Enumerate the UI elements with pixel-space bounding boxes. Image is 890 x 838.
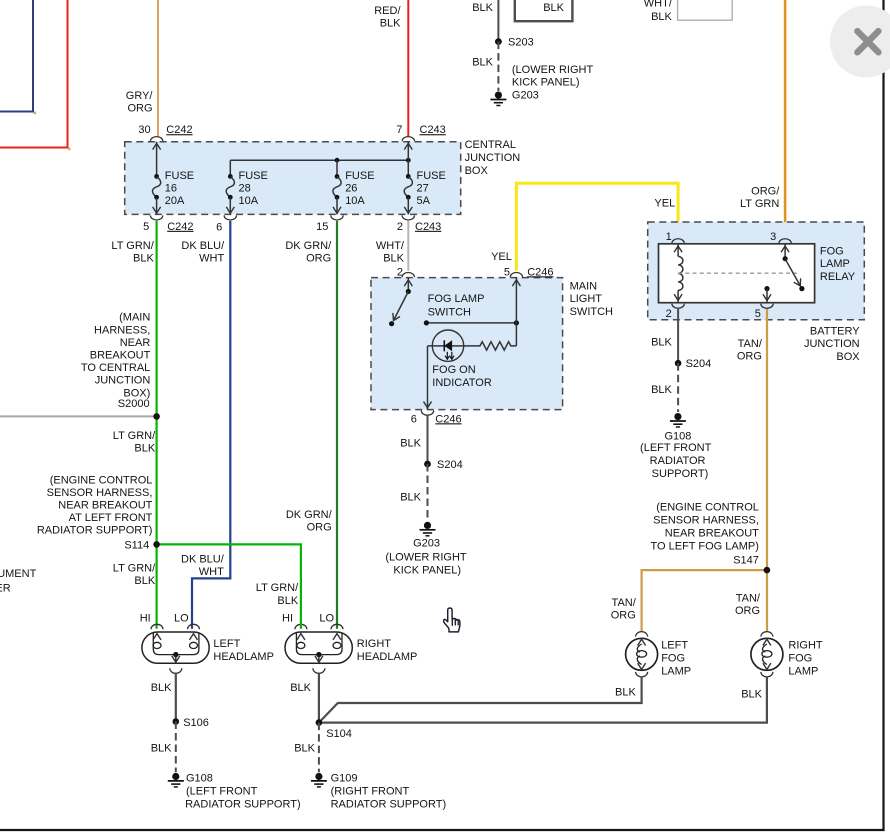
svg-text:BLK: BLK: [472, 2, 493, 14]
wire BLK dashed S104 to G109: [318, 723, 320, 773]
wire ORG/LT GRN from top to relay pin 3: [784, 0, 787, 236]
svg-text:(LEFT FRONT: (LEFT FRONT: [186, 786, 258, 798]
svg-text:LO: LO: [319, 613, 334, 625]
wire BLK fog lamp switch pin6 to S204: [427, 416, 429, 464]
svg-text:C242: C242: [167, 221, 193, 233]
svg-text:6: 6: [216, 222, 222, 234]
svg-text:FUSE: FUSE: [239, 170, 268, 182]
fog lamp at x=641.6: [636, 632, 648, 637]
wire BLK relay pin2 to S204: [677, 309, 679, 363]
relay blade (open): [785, 259, 800, 286]
wire DK GRN/ORG fuse26 to right headlamp LO: [336, 221, 338, 629]
wire YEL switch pin5 to relay pin1: [516, 183, 678, 270]
splice S104: [316, 719, 323, 726]
svg-text:YEL: YEL: [654, 197, 675, 209]
svg-text:ORG: ORG: [306, 252, 331, 264]
svg-text:7: 7: [396, 124, 402, 136]
svg-text:2: 2: [397, 221, 403, 233]
svg-text:BLK: BLK: [151, 682, 172, 694]
svg-text:DK BLU/: DK BLU/: [181, 240, 225, 252]
svg-text:ORG: ORG: [737, 351, 762, 363]
svg-text:BOX: BOX: [836, 351, 860, 363]
ground G203 (lower right kick panel): [495, 92, 502, 99]
svg-text:JUNCTION: JUNCTION: [804, 338, 860, 350]
svg-text:ORG: ORG: [611, 610, 636, 622]
svg-text:KICK PANEL): KICK PANEL): [512, 77, 580, 89]
svg-text:BREAKOUT: BREAKOUT: [90, 350, 151, 362]
fuse 26 10A: [336, 160, 338, 176]
svg-text:BLK: BLK: [277, 595, 298, 607]
splice S106: [173, 718, 180, 725]
LED triangle + cathode bar: [444, 340, 452, 351]
svg-text:SUPPORT): SUPPORT): [652, 468, 709, 480]
svg-text:AT LEFT FRONT: AT LEFT FRONT: [69, 512, 153, 524]
svg-text:INDICATOR: INDICATOR: [432, 377, 492, 389]
svg-text:(LOWER RIGHT: (LOWER RIGHT: [385, 551, 467, 563]
svg-text:C246: C246: [527, 266, 553, 278]
svg-text:ORG: ORG: [735, 605, 760, 617]
relay actuation dashed link: [678, 272, 797, 274]
close (X) button: [830, 6, 890, 78]
splice S203: [495, 38, 502, 45]
svg-text:(LEFT FRONT: (LEFT FRONT: [640, 442, 712, 454]
connector arc relay pin 3: [779, 239, 791, 244]
svg-text:FOG: FOG: [788, 652, 812, 664]
svg-text:NEAR BREAKOUT: NEAR BREAKOUT: [58, 499, 152, 511]
junction dot at fuse 26 bus: [335, 158, 340, 163]
wire BLK right fog lamp to S104: [321, 677, 767, 723]
svg-text:BLK: BLK: [380, 18, 401, 30]
svg-text:27: 27: [417, 182, 429, 194]
svg-text:YEL: YEL: [491, 251, 512, 263]
svg-text:JUNCTION: JUNCTION: [95, 375, 151, 387]
switch contact line: [426, 322, 516, 324]
svg-text:C243: C243: [415, 221, 441, 233]
svg-text:BLK: BLK: [615, 686, 636, 698]
svg-text:HARNESS,: HARNESS,: [94, 324, 150, 336]
central junction box (dashed, blue fill): [125, 142, 461, 215]
svg-text:MAIN: MAIN: [570, 281, 598, 293]
svg-text:2: 2: [666, 308, 672, 320]
main light switch box (dashed, blue fill): [371, 278, 563, 410]
switch pin 2 lead: [407, 278, 409, 292]
splice S2000: [153, 413, 160, 420]
svg-text:TAN/: TAN/: [612, 597, 637, 609]
svg-text:BLK: BLK: [400, 438, 421, 450]
connector arc pin 15: [331, 215, 343, 220]
svg-text:CENTRAL: CENTRAL: [465, 139, 516, 151]
svg-text:RADIATOR SUPPORT): RADIATOR SUPPORT): [185, 798, 301, 810]
svg-text:BLK: BLK: [383, 252, 404, 264]
svg-text:KICK PANEL): KICK PANEL): [393, 564, 461, 576]
svg-text:BLK: BLK: [134, 575, 155, 587]
relay pin5 contact: [764, 286, 769, 291]
svg-text:16: 16: [165, 182, 177, 194]
wire TAN/ORG relay pin5 to fog lamps: [766, 309, 768, 632]
svg-text:5: 5: [504, 266, 510, 278]
svg-text:DK BLU/: DK BLU/: [181, 554, 225, 566]
svg-text:5: 5: [755, 308, 761, 320]
svg-text:HEADLAMP: HEADLAMP: [213, 651, 274, 663]
fog lamp at x=766.9: [761, 632, 773, 637]
wire GRY/ORG from top to fuse 16: [157, 0, 159, 137]
svg-text:HI: HI: [140, 613, 151, 625]
junction dot at fuse 27 bus: [406, 158, 411, 163]
resistor (indicator dropping): [428, 342, 517, 350]
ground G203 (lower right kick panel, switch side): [424, 522, 431, 529]
switch pin 5 lead: [515, 278, 517, 346]
connector arc relay pin 1: [672, 239, 684, 244]
svg-text:JUNCTION: JUNCTION: [465, 152, 521, 164]
svg-text:BLK: BLK: [651, 336, 672, 348]
svg-text:5A: 5A: [417, 195, 431, 207]
relay switch pin3 lead: [784, 244, 786, 259]
svg-text:S104: S104: [326, 728, 352, 740]
svg-text:GRY/: GRY/: [126, 90, 154, 102]
svg-text:WHT: WHT: [199, 252, 224, 264]
connector arc relay pin 5: [761, 304, 773, 309]
connector arc pin 2 C243: [402, 215, 414, 220]
svg-text:(RIGHT FRONT: (RIGHT FRONT: [331, 786, 410, 798]
svg-text:BATTERY: BATTERY: [810, 325, 860, 337]
svg-text:LAMP: LAMP: [820, 258, 850, 270]
cropped connector box top middle: [515, 0, 573, 21]
svg-text:TO CENTRAL: TO CENTRAL: [81, 362, 150, 374]
svg-text:10A: 10A: [345, 195, 365, 207]
svg-text:RIGHT: RIGHT: [788, 639, 823, 651]
LED emission arrows: [446, 352, 448, 359]
svg-text:LEFT: LEFT: [661, 639, 688, 651]
svg-text:S2000: S2000: [118, 398, 150, 410]
fuse 16 20A: [156, 142, 158, 177]
svg-text:LT GRN/: LT GRN/: [111, 240, 154, 252]
svg-text:TO LEFT FOG LAMP): TO LEFT FOG LAMP): [651, 541, 759, 553]
svg-text:G108: G108: [186, 773, 213, 785]
splice S204 (switch side): [424, 461, 431, 468]
wire BLK right headlamp to S104: [318, 673, 320, 722]
svg-text:C246: C246: [435, 413, 461, 425]
svg-text:(ENGINE CONTROL: (ENGINE CONTROL: [50, 474, 153, 486]
fog on indicator LED circle: [432, 330, 463, 361]
ground G109 (right front radiator support): [315, 773, 322, 780]
svg-text:RADIATOR SUPPORT): RADIATOR SUPPORT): [331, 798, 447, 810]
svg-text:15: 15: [316, 221, 328, 233]
svg-text:FUSE: FUSE: [165, 170, 194, 182]
svg-text:20A: 20A: [165, 195, 185, 207]
svg-text:LIGHT: LIGHT: [570, 293, 603, 305]
fuse 27 5A: [407, 142, 409, 177]
svg-text:BLK: BLK: [651, 11, 672, 23]
ground G108 (left headlamp): [172, 773, 179, 780]
svg-text:BLK: BLK: [741, 689, 762, 701]
svg-text:ER: ER: [0, 582, 11, 594]
wire DK BLU/WHT fuse28 to left headlamp LO: [192, 221, 230, 629]
wire WHT/BLK fuse27 to fog lamp switch pin 2: [407, 221, 409, 271]
svg-text:LT GRN/: LT GRN/: [113, 563, 156, 575]
svg-text:WHT/: WHT/: [376, 240, 405, 252]
ground G108 (left front radiator support): [674, 413, 681, 420]
wire stub to S2000: [0, 415, 157, 417]
svg-text:LT GRN: LT GRN: [740, 198, 779, 210]
svg-text:26: 26: [345, 182, 357, 194]
wire BLK dashed S204 to G108: [677, 363, 679, 412]
fog lamp switch blade (open): [394, 292, 409, 321]
svg-text:6: 6: [411, 413, 417, 425]
svg-text:ORG/: ORG/: [751, 186, 780, 198]
diagram frame right/bottom border: [882, 0, 884, 831]
connector arc switch pin 2: [402, 273, 414, 278]
svg-text:1: 1: [666, 231, 672, 243]
svg-text:C242: C242: [166, 124, 192, 136]
svg-text:RED/: RED/: [374, 5, 401, 17]
svg-text:HEADLAMP: HEADLAMP: [357, 651, 418, 663]
svg-text:C243: C243: [420, 124, 446, 136]
svg-text:WHT/: WHT/: [644, 0, 673, 9]
svg-text:LAMP: LAMP: [788, 665, 818, 677]
svg-text:BLK: BLK: [543, 2, 564, 14]
svg-text:BLK: BLK: [134, 443, 155, 455]
svg-text:5: 5: [143, 221, 149, 233]
svg-text:SENSOR HARNESS,: SENSOR HARNESS,: [653, 514, 759, 526]
svg-text:S114: S114: [124, 540, 149, 552]
svg-text:LT GRN/: LT GRN/: [256, 582, 299, 594]
svg-text:S147: S147: [733, 554, 759, 566]
svg-text:ORG: ORG: [307, 522, 332, 534]
wire BLK dashed S106 to G108: [175, 722, 177, 773]
svg-text:FOG LAMP: FOG LAMP: [428, 293, 485, 305]
connector arc relay pin 2: [672, 304, 684, 309]
switch pin 6 lead (indicator ground): [427, 346, 429, 410]
svg-text:FUSE: FUSE: [417, 170, 446, 182]
svg-text:G203: G203: [512, 90, 539, 102]
svg-text:10A: 10A: [239, 195, 259, 207]
svg-text:LAMP: LAMP: [661, 665, 691, 677]
relay coil: [677, 244, 679, 257]
svg-text:UMENT: UMENT: [0, 568, 37, 580]
svg-text:BLK: BLK: [133, 252, 154, 264]
connector arc switch pin 5: [510, 273, 522, 278]
svg-text:30: 30: [138, 124, 150, 136]
svg-text:DK GRN/: DK GRN/: [286, 509, 333, 521]
svg-text:WHT: WHT: [199, 566, 224, 578]
svg-text:BLK: BLK: [151, 743, 172, 755]
connector arc pin 6: [224, 215, 236, 220]
svg-text:BLK: BLK: [400, 492, 421, 504]
wire BLK top to S203: [497, 0, 499, 42]
wire BLK dashed S203 to G203: [497, 42, 499, 91]
svg-text:LEFT: LEFT: [213, 638, 240, 650]
svg-text:RIGHT: RIGHT: [357, 638, 392, 650]
splice S147: [764, 567, 771, 574]
svg-text:SWITCH: SWITCH: [428, 307, 471, 319]
svg-text:BLK: BLK: [651, 384, 672, 396]
svg-text:FOG: FOG: [661, 652, 685, 664]
svg-text:ORG: ORG: [127, 103, 152, 115]
wire TAN/ORG branch to left fog lamp: [642, 570, 767, 632]
battery junction box (dashed, blue fill): [648, 222, 865, 320]
svg-text:RELAY: RELAY: [820, 271, 856, 283]
svg-text:NEAR: NEAR: [120, 337, 151, 349]
svg-text:FOG ON: FOG ON: [432, 364, 475, 376]
wire LT GRN/BLK fuse16 to left headlamp HI: [156, 221, 158, 629]
svg-text:3: 3: [770, 231, 776, 243]
svg-text:SWITCH: SWITCH: [570, 306, 613, 318]
wire BLK left headlamp to S106: [175, 673, 177, 721]
svg-text:G108: G108: [664, 430, 691, 442]
svg-text:(LOWER RIGHT: (LOWER RIGHT: [512, 64, 594, 76]
svg-text:G203: G203: [413, 537, 440, 549]
headlamp at x=318.9: [295, 624, 307, 629]
svg-text:(MAIN: (MAIN: [119, 312, 150, 324]
wire: cropped navy wire top-left elbow: [34, 112, 36, 115]
wire BLK dashed to G203: [427, 464, 429, 521]
svg-text:BLK: BLK: [472, 57, 493, 69]
svg-text:TAN/: TAN/: [738, 338, 763, 350]
svg-text:FUSE: FUSE: [345, 170, 374, 182]
svg-text:S203: S203: [508, 37, 534, 49]
svg-text:LO: LO: [174, 613, 189, 625]
svg-text:LT GRN/: LT GRN/: [113, 430, 156, 442]
svg-text:BLK: BLK: [294, 743, 315, 755]
connector arc pin 5 C242: [150, 215, 162, 220]
fog lamp relay box: [659, 244, 815, 303]
svg-text:S204: S204: [437, 459, 463, 471]
connector arc pin 30: [150, 137, 162, 142]
svg-text:SENSOR HARNESS,: SENSOR HARNESS,: [47, 487, 153, 499]
svg-text:DK GRN/: DK GRN/: [285, 240, 332, 252]
svg-text:RADIATOR SUPPORT): RADIATOR SUPPORT): [37, 524, 153, 536]
svg-text:S106: S106: [183, 717, 209, 729]
wire BLK left fog lamp to S104: [319, 677, 642, 723]
connector arc pin 7: [402, 137, 414, 142]
svg-text:G109: G109: [331, 773, 358, 785]
svg-text:TAN/: TAN/: [736, 592, 761, 604]
svg-text:RADIATOR: RADIATOR: [650, 455, 706, 467]
wire: cropped red wire top-left elbow: [68, 148, 71, 151]
connector arc switch pin 6: [421, 411, 433, 416]
fuse 28 10A: [229, 160, 231, 176]
wire: fuse supply bus inside junction box: [230, 159, 408, 161]
svg-text:HI: HI: [282, 613, 293, 625]
wire RED/BLK from top to fuse 27: [407, 0, 409, 136]
svg-text:BOX: BOX: [465, 165, 489, 177]
svg-text:28: 28: [239, 182, 251, 194]
headlamp at x=175.8: [151, 624, 163, 629]
splice S204: [675, 360, 682, 367]
svg-text:BLK: BLK: [290, 682, 311, 694]
svg-text:NEAR BREAKOUT: NEAR BREAKOUT: [665, 528, 759, 540]
svg-text:FOG: FOG: [820, 245, 844, 257]
wire LT GRN/BLK S114 to right headlamp HI: [157, 544, 301, 628]
mouse hand cursor: [444, 608, 460, 632]
svg-text:(ENGINE CONTROL: (ENGINE CONTROL: [656, 501, 759, 513]
svg-text:S204: S204: [686, 358, 712, 370]
